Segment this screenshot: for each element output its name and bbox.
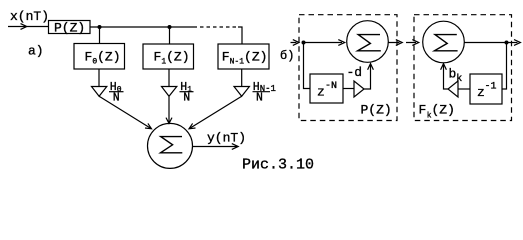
multiplier triangle bk <box>448 81 458 97</box>
svg-text:-d: -d <box>347 65 363 80</box>
svg-text:FN-1(Z): FN-1(Z) <box>222 50 268 67</box>
svg-text:P(Z): P(Z) <box>54 21 85 36</box>
svg-text:F1(Z): F1(Z) <box>154 50 190 67</box>
dashed box Fk(Z) section <box>414 15 512 121</box>
wire z^-1 to bk triangle <box>458 88 470 90</box>
node junction dot 1 <box>98 25 102 29</box>
svg-text:-1: -1 <box>485 82 497 93</box>
multiplier triangle H0/N <box>92 87 107 97</box>
block z^-N <box>310 74 343 103</box>
wire z^-N to -d triangle <box>343 88 354 90</box>
wire input arrow to section b <box>291 40 300 46</box>
wire feedback down right section <box>502 43 507 90</box>
wire tap down to F1 <box>169 27 171 44</box>
wire output y(nT) <box>193 144 238 150</box>
svg-text:N: N <box>256 91 263 104</box>
block F0(Z) <box>74 44 125 70</box>
wire H1 to summer vertical <box>166 96 172 123</box>
wire feedback down left section <box>304 43 311 89</box>
wire tap down to F0 <box>99 27 101 44</box>
svg-text:N: N <box>183 91 190 104</box>
svg-text:P(Z): P(Z) <box>361 103 392 118</box>
node junction dot b2 <box>505 41 509 45</box>
svg-text:y(nT): y(nT) <box>207 131 246 146</box>
block F1(Z) <box>143 44 194 69</box>
node junction dot b1 <box>302 41 306 45</box>
wire top bus dashed segment <box>200 26 236 28</box>
svg-text:Рис.3.10: Рис.3.10 <box>242 157 314 173</box>
svg-text:б): б) <box>280 49 294 63</box>
svg-text:z: z <box>317 85 325 100</box>
node junction dot 2 <box>168 25 172 29</box>
svg-text:N: N <box>113 91 120 104</box>
wire to summer U1 <box>304 40 345 46</box>
wire top bus corner into FN-1 <box>238 27 242 44</box>
svg-text:-N: -N <box>325 81 337 92</box>
wire U2 output <box>464 40 520 46</box>
svg-text:F: F <box>419 103 427 118</box>
block z^-1 <box>470 74 502 104</box>
wire HN-1 to summer diagonal <box>189 96 242 129</box>
wire input arrow into P(Z) <box>8 24 48 30</box>
svg-text:(Z): (Z) <box>432 103 455 118</box>
wire U1 output arrow <box>388 40 402 46</box>
wire arrow into section Fk <box>406 40 419 46</box>
summer circle left <box>148 123 193 168</box>
multiplier triangle H1/N <box>162 87 177 97</box>
wire FN-1 to multiplier HN-1 <box>241 69 243 87</box>
summer circle U2 <box>423 21 465 63</box>
svg-text:F0(Z): F0(Z) <box>85 50 121 67</box>
wire -d to U1 <box>364 64 373 89</box>
wire top bus solid segment <box>90 26 197 28</box>
wire H0 to summer diagonal <box>99 96 151 129</box>
dashed box P(Z) section <box>299 15 397 121</box>
wire F1 to multiplier H1 <box>168 69 170 87</box>
summer circle U1 <box>347 21 389 63</box>
multiplier triangle HN-1/N <box>234 87 249 97</box>
block FN-1(Z) <box>218 44 269 69</box>
block P(Z) <box>49 21 91 34</box>
wire bk to U2 <box>441 64 448 89</box>
svg-text:k: k <box>456 73 462 85</box>
svg-text:b: b <box>449 67 457 82</box>
svg-text:a): a) <box>28 44 44 59</box>
multiplier triangle -d <box>354 81 364 97</box>
svg-text:x(nT): x(nT) <box>10 9 49 24</box>
wire F0 to multiplier H0 <box>98 69 100 87</box>
